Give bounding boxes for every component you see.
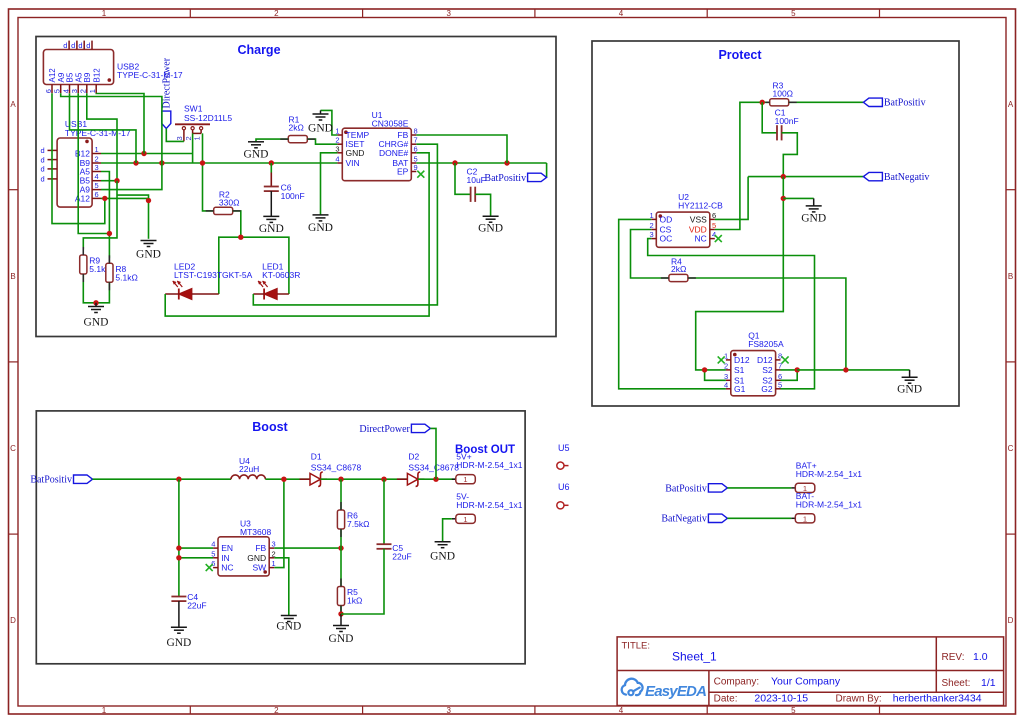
svg-text:330Ω: 330Ω (219, 198, 240, 208)
no-connect X (417, 171, 424, 178)
resistor R6 (337, 510, 369, 529)
svg-text:OC: OC (660, 234, 673, 244)
svg-text:BatPositiv: BatPositiv (665, 483, 707, 494)
USB2 pin 5 A9 (53, 72, 66, 93)
Q1 pin 8 D12 (757, 351, 782, 365)
svg-text:1: 1 (102, 9, 107, 18)
junction (452, 160, 457, 165)
wire B5 row (101, 180, 117, 182)
svg-text:D2: D2 (408, 451, 419, 461)
svg-text:NC: NC (221, 563, 233, 573)
svg-text:TYPE-C-31-M-17: TYPE-C-31-M-17 (117, 70, 183, 80)
wire 5V- to GND (443, 519, 452, 542)
svg-text:B12: B12 (92, 68, 101, 83)
svg-text:SS34_C8678: SS34_C8678 (311, 462, 362, 472)
svg-text:B: B (1008, 272, 1013, 281)
wire C5 bottom to R5 node (341, 549, 384, 614)
wire rail to C5 (383, 479, 385, 544)
wire LED row (219, 237, 289, 294)
junction (269, 160, 274, 165)
svg-text:4: 4 (724, 380, 728, 389)
Q1 pin 3 S1 (724, 372, 745, 386)
USB2 pin 6 A12 (44, 68, 57, 93)
svg-text:HDR-M-2.54_1x1: HDR-M-2.54_1x1 (456, 500, 522, 510)
wire BatNegativ to BAT- header (727, 517, 791, 519)
wire R5 bottom (340, 606, 342, 615)
junction (760, 100, 765, 105)
net flag DirectPower (359, 424, 430, 435)
svg-text:1: 1 (102, 706, 107, 715)
wire R5 GND stub (340, 614, 342, 626)
wire USB2 pin1 B12 link (96, 93, 144, 153)
svg-text:A9: A9 (57, 72, 66, 82)
wire IN (179, 557, 213, 559)
wire C1 top (762, 102, 777, 133)
svg-text:SS34_C8678: SS34_C8678 (408, 462, 459, 472)
svg-text:5: 5 (791, 9, 796, 18)
USB1 left pin (41, 146, 58, 155)
junction (141, 151, 146, 156)
svg-text:6: 6 (712, 211, 716, 220)
svg-text:3: 3 (95, 163, 99, 172)
U2 pin 5 VDD (689, 221, 716, 235)
svg-text:1: 1 (803, 514, 807, 523)
wire BatNegativ row (748, 176, 863, 178)
svg-text:B: B (10, 272, 15, 281)
capacitor C2 (467, 167, 486, 202)
svg-text:U5: U5 (558, 443, 570, 453)
svg-text:herberthanker3434: herberthanker3434 (893, 693, 982, 705)
svg-text:NC: NC (695, 234, 707, 244)
switch SW1 SS-12D11L5 (175, 104, 232, 142)
wire BAT row (416, 162, 546, 164)
svg-text:100nF: 100nF (775, 116, 799, 126)
svg-text:2023-10-15: 2023-10-15 (754, 693, 808, 705)
junction (338, 611, 343, 616)
svg-text:GND: GND (276, 621, 301, 633)
svg-text:C: C (1008, 444, 1014, 453)
svg-text:d: d (41, 155, 45, 164)
Q1 pin 5 G2 (761, 380, 782, 394)
USB connector USB1 (57, 119, 131, 207)
svg-text:EN: EN (221, 543, 233, 553)
wire R1 left to GND (256, 139, 288, 142)
wire S2 row to GND (797, 369, 909, 371)
wire FB to BAT (416, 135, 507, 163)
wire R3 right to BatPositiv (789, 101, 864, 103)
component pin leads (83, 102, 796, 611)
svg-text:1: 1 (463, 515, 467, 524)
svg-text:A12: A12 (48, 68, 57, 83)
svg-text:22uH: 22uH (239, 464, 259, 474)
junction (176, 477, 181, 482)
wire rail to EN IN (178, 479, 180, 596)
svg-text:5: 5 (211, 549, 215, 558)
svg-text:EasyEDA: EasyEDA (645, 683, 706, 700)
wire BatNegativ to VSS (715, 177, 748, 220)
U1 pin 2 ISET (335, 136, 364, 150)
wire C2 left (455, 163, 471, 194)
U3 pin 1 SW (252, 559, 275, 573)
svg-text:GND: GND (897, 384, 922, 396)
svg-text:4: 4 (712, 230, 716, 239)
wire main rail (93, 478, 232, 480)
svg-text:5.1kΩ: 5.1kΩ (115, 272, 137, 282)
svg-text:BatNegativ: BatNegativ (884, 172, 930, 183)
USB2 pin 1 B12 (88, 68, 101, 93)
USB1 left pin (41, 155, 58, 164)
svg-text:5: 5 (778, 380, 782, 389)
U3 pin 6 NC (211, 559, 233, 573)
svg-text:3: 3 (446, 706, 451, 715)
svg-text:HDR-M-2.54_1x1: HDR-M-2.54_1x1 (456, 460, 522, 470)
svg-text:1: 1 (463, 475, 467, 484)
wire row1 B12 (101, 153, 193, 155)
svg-text:4: 4 (61, 89, 70, 93)
ground (308, 215, 333, 234)
svg-text:HY2112-CB: HY2112-CB (678, 201, 723, 211)
wire C2 right to GND (475, 194, 490, 216)
svg-text:5: 5 (712, 221, 716, 230)
resistor R4 (669, 257, 688, 282)
U3 pin 5 IN (211, 549, 229, 563)
svg-text:100nF: 100nF (281, 191, 305, 201)
wire USB2 pin3 A5 link (78, 93, 109, 233)
svg-text:4: 4 (211, 540, 215, 549)
USB2 top pin (78, 41, 84, 50)
svg-text:3: 3 (175, 136, 184, 140)
USB1 left pin (41, 175, 58, 184)
svg-text:2kΩ: 2kΩ (289, 123, 304, 133)
wire LED1 pins (253, 293, 264, 295)
svg-text:S1: S1 (734, 365, 745, 375)
USB2 pin 2 B9 (79, 72, 92, 93)
U3 pin 4 EN (211, 540, 233, 554)
svg-text:2: 2 (79, 89, 88, 93)
svg-text:FS8205A: FS8205A (748, 339, 784, 349)
svg-text:8: 8 (414, 127, 418, 136)
junction (114, 178, 119, 183)
svg-text:EP: EP (397, 167, 409, 177)
capacitor C5 (377, 543, 412, 562)
ground (308, 114, 333, 135)
svg-text:SW1: SW1 (184, 104, 203, 114)
USB1 pin 4 B5 (80, 172, 101, 186)
Boost block frame (36, 411, 525, 664)
connector U6 (557, 482, 570, 509)
header BAT+ (791, 460, 862, 493)
svg-text:Your Company: Your Company (771, 676, 841, 688)
svg-text:D1: D1 (311, 451, 322, 461)
svg-text:d: d (63, 41, 67, 50)
wire Q1 S2 tie (781, 370, 798, 380)
ground (478, 216, 503, 235)
junction (781, 174, 786, 179)
Q1 pin 1 D12 (724, 351, 750, 365)
svg-text:3: 3 (272, 540, 276, 549)
svg-text:2kΩ: 2kΩ (671, 264, 686, 274)
svg-text:1: 1 (335, 127, 339, 136)
USB1 left pin (41, 165, 58, 174)
wire C6 top (270, 163, 272, 173)
wire A12 row (101, 197, 149, 199)
svg-text:5: 5 (53, 89, 62, 93)
wire SW1 pin1 down to R2 (203, 133, 214, 211)
resistor R9 (80, 255, 112, 274)
svg-text:22uF: 22uF (392, 552, 411, 562)
svg-text:GND: GND (247, 553, 266, 563)
wire LED2 pins (165, 293, 179, 295)
junction (159, 160, 164, 165)
USB1 pin 6 A12 (75, 190, 101, 204)
svg-text:d: d (71, 41, 75, 50)
wire D2 to header (418, 478, 456, 480)
ground (329, 626, 354, 646)
svg-text:3: 3 (650, 230, 654, 239)
svg-text:SS-12D11L5: SS-12D11L5 (184, 113, 232, 123)
svg-text:GND: GND (329, 633, 354, 645)
svg-text:1: 1 (88, 89, 97, 93)
svg-text:7.5kΩ: 7.5kΩ (347, 519, 369, 529)
svg-text:VIN: VIN (346, 158, 360, 168)
junction (176, 545, 181, 550)
wire U2 OD to Q1 G1 (619, 219, 726, 388)
svg-text:DirectPower: DirectPower (162, 57, 173, 108)
wire SW1 pin2 down to VBUS row (192, 133, 194, 163)
ground (244, 142, 269, 161)
svg-text:GND: GND (308, 123, 333, 135)
svg-text:BatPositiv: BatPositiv (884, 98, 926, 109)
svg-text:S2: S2 (762, 365, 773, 375)
svg-text:CN3058E: CN3058E (372, 119, 409, 129)
svg-text:Sheet_1: Sheet_1 (672, 650, 717, 664)
svg-text:D: D (1008, 616, 1014, 625)
svg-text:REV:: REV: (942, 652, 965, 663)
junction (338, 545, 343, 550)
wire DirectPower to SW1 pin3 (166, 129, 184, 142)
wire USB2 pin5 A9 link (61, 93, 162, 163)
svg-text:5: 5 (791, 706, 796, 715)
USB1 pin 2 B9 (80, 155, 101, 169)
svg-text:SW: SW (252, 563, 266, 573)
wire U2 CS to R4 (631, 230, 669, 279)
IC U1 CN3058E (342, 110, 411, 181)
svg-text:DONE#: DONE# (379, 148, 409, 158)
wire U3 SW to rail (274, 479, 284, 567)
svg-text:2: 2 (272, 549, 276, 558)
svg-text:BatPositiv: BatPositiv (30, 475, 72, 486)
svg-text:A: A (1008, 100, 1014, 109)
LED LED2 (173, 262, 253, 300)
svg-text:6: 6 (95, 190, 99, 199)
svg-text:8: 8 (778, 351, 782, 360)
svg-text:4: 4 (619, 706, 624, 715)
junction (338, 477, 343, 482)
junction (381, 477, 386, 482)
U2 pin 3 OC (650, 230, 673, 244)
svg-text:D12: D12 (734, 355, 750, 365)
svg-text:4: 4 (95, 172, 99, 181)
svg-text:A: A (10, 100, 16, 109)
wire LED1 cathode to U1 CHRG# (253, 144, 437, 305)
ground (166, 627, 191, 649)
connector U5 (557, 443, 570, 469)
junction (281, 477, 286, 482)
wire GND stub (909, 370, 911, 377)
svg-text:9: 9 (414, 163, 418, 172)
svg-text:GND: GND (259, 223, 284, 235)
net flag BatPositiv (30, 475, 92, 486)
wire A5 row to R8 (101, 172, 109, 259)
U1 pin 8 FB (397, 127, 417, 141)
svg-text:6: 6 (211, 559, 215, 568)
svg-text:Drawn By:: Drawn By: (836, 694, 882, 705)
wire B5 to R9 (83, 181, 117, 250)
ground (259, 216, 284, 235)
svg-text:Company:: Company: (714, 677, 760, 688)
svg-text:1: 1 (95, 145, 99, 154)
svg-text:HDR-M-2.54_1x1: HDR-M-2.54_1x1 (796, 469, 862, 479)
junction (843, 367, 848, 372)
svg-text:Boost: Boost (252, 420, 288, 434)
svg-text:BatPositiv: BatPositiv (484, 173, 526, 184)
svg-text:A12: A12 (75, 193, 90, 203)
svg-text:IN: IN (221, 553, 230, 563)
wire EN (179, 547, 213, 549)
IC U3 MT3608 (218, 519, 271, 576)
wire branch to GND column (117, 195, 149, 198)
svg-text:22uF: 22uF (187, 601, 206, 611)
diode D2 (397, 451, 459, 486)
svg-text:HDR-M-2.54_1x1: HDR-M-2.54_1x1 (796, 499, 862, 509)
resistor R1 (288, 115, 307, 143)
svg-text:OD: OD (660, 214, 673, 224)
wire U3 GND (274, 558, 289, 616)
svg-text:Protect: Protect (718, 48, 762, 62)
svg-text:1.0: 1.0 (973, 651, 988, 663)
wire C6 bottom to GND (270, 191, 272, 216)
svg-text:2: 2 (274, 706, 279, 715)
svg-text:GND: GND (166, 637, 191, 649)
USB2 top pin (86, 41, 92, 50)
svg-text:MT3608: MT3608 (240, 527, 271, 537)
svg-text:2: 2 (274, 9, 279, 18)
wire BAT to BatPositiv flag (546, 163, 548, 177)
svg-text:GND: GND (478, 223, 503, 235)
svg-text:GND: GND (136, 249, 161, 261)
svg-text:TITLE:: TITLE: (622, 641, 651, 652)
svg-text:6: 6 (44, 89, 53, 93)
wire USB2 pin4 B5 link (70, 93, 137, 163)
U1 pin 6 DONE# (379, 144, 418, 158)
svg-text:6: 6 (414, 144, 418, 153)
U2 pin 1 OD (650, 211, 673, 225)
svg-text:1/1: 1/1 (981, 677, 996, 689)
Protect block frame (592, 41, 959, 406)
junction (133, 160, 138, 165)
svg-text:d: d (86, 41, 90, 50)
wire C1 bottom jog (782, 133, 798, 177)
transistor Q1 FS8205A (731, 331, 784, 396)
USB1 pin 1 B12 (75, 145, 101, 159)
junction (93, 300, 98, 305)
svg-text:BatNegativ: BatNegativ (661, 514, 707, 525)
net flag BatPositiv (484, 173, 546, 184)
U3 pin 3 FB (255, 540, 275, 554)
wire rail U4 to D1 (265, 478, 310, 480)
wire LED2 cathode to U1 DONE# (165, 153, 429, 316)
svg-text:d: d (41, 146, 45, 155)
svg-text:100Ω: 100Ω (773, 89, 794, 99)
wire rail to R6 (340, 479, 342, 510)
ground (84, 307, 109, 329)
svg-text:1kΩ: 1kΩ (347, 596, 362, 606)
svg-text:1: 1 (192, 136, 201, 140)
USB1 pin 5 A9 (80, 181, 101, 195)
wire U1 GND pin to GND (321, 153, 338, 215)
wire BatNegativ down (696, 177, 784, 370)
svg-text:3: 3 (335, 144, 339, 153)
wire U3 FB to divider (274, 547, 341, 549)
U1 pin 4 VIN (335, 155, 359, 169)
wire TEMP to GND (321, 110, 338, 135)
wire U2 OC to Q1 G2 (648, 239, 815, 389)
wire R4 right to S2 node (689, 278, 846, 370)
USB2 top pin (71, 41, 77, 50)
svg-text:Date:: Date: (714, 694, 738, 705)
svg-text:D12: D12 (757, 355, 773, 365)
U2 pin 6 VSS (690, 211, 716, 225)
EasyEDA logo (622, 679, 706, 700)
svg-text:B12: B12 (75, 149, 90, 159)
svg-text:B5: B5 (66, 72, 75, 82)
svg-text:GND: GND (244, 148, 269, 160)
svg-text:B9: B9 (83, 72, 92, 82)
svg-text:GND: GND (308, 222, 333, 234)
svg-text:DirectPower: DirectPower (359, 424, 410, 435)
svg-text:KT-0603R: KT-0603R (262, 270, 300, 280)
net flag BatNegativ (661, 514, 727, 525)
diode D1 (300, 451, 362, 486)
resistor R8 (106, 263, 138, 282)
capacitor C4 (171, 592, 206, 611)
U1 pin 3 GND (335, 144, 364, 158)
svg-text:GND: GND (84, 317, 109, 329)
svg-text:GND: GND (346, 148, 365, 158)
IC U2 HY2112-CB (656, 192, 723, 247)
wire C4 bottom to GND (178, 601, 180, 627)
svg-text:d: d (41, 175, 45, 184)
inductor U4 22uH (231, 456, 265, 479)
U2 pin 2 CS (650, 221, 672, 235)
header 5V+ (452, 452, 523, 485)
junction (433, 477, 438, 482)
svg-text:5: 5 (95, 181, 99, 190)
no-connect X (718, 356, 725, 363)
USB2 pin 3 A5 (70, 72, 83, 93)
svg-text:U6: U6 (558, 482, 570, 492)
ground (430, 542, 455, 563)
wire D1 to D2 (321, 478, 408, 480)
USB1 pin 3 A5 (80, 163, 101, 177)
resistor R5 (337, 587, 362, 606)
wire GND stub (95, 303, 97, 307)
svg-text:10uF: 10uF (467, 175, 486, 185)
svg-text:GND: GND (801, 212, 826, 224)
wire R6 bottom (340, 529, 342, 548)
wire R5 top (340, 548, 342, 586)
resistor R3 (770, 81, 793, 106)
